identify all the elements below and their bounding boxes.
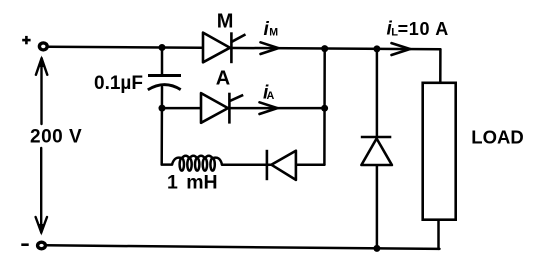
svg-text:LOAD: LOAD bbox=[471, 127, 523, 148]
svg-text:mH: mH bbox=[186, 172, 217, 194]
svg-text:M: M bbox=[217, 11, 234, 33]
svg-text:1: 1 bbox=[167, 172, 178, 194]
svg-text:M: M bbox=[269, 26, 278, 38]
svg-text:A: A bbox=[216, 67, 230, 89]
svg-text:0.1µF: 0.1µF bbox=[94, 73, 143, 94]
svg-text:=10 A: =10 A bbox=[398, 19, 449, 39]
svg-text:200 V: 200 V bbox=[30, 126, 82, 147]
svg-text:A: A bbox=[267, 90, 275, 102]
